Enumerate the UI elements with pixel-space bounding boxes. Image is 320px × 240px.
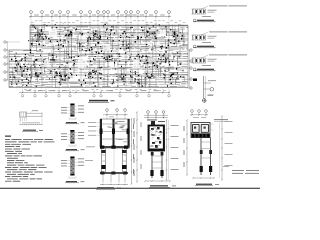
wall column detail 1 header labels (147, 120, 165, 128)
detail 4: column splice elevation (top right) (193, 76, 216, 99)
column section detail S1 (61, 104, 84, 120)
plan: top dimension line (29, 15, 171, 18)
plan: bottom dimension line and bubbles (19, 89, 170, 98)
sheet bottom border line (0, 187, 260, 189)
wall column detail 2 left dim (184, 119, 188, 175)
column section detail S1 title (65, 122, 85, 124)
column section detail S2 (61, 130, 84, 147)
wall column detail 1 lower ladder (150, 151, 163, 178)
wall column detail 1 upper body (148, 125, 165, 151)
beam detail (bottom left) (19, 110, 42, 125)
column section detail S3 (61, 157, 84, 179)
notes text block (5, 139, 55, 181)
stair detail lower floor band (100, 172, 128, 186)
beam section detail 3 (top right) (191, 55, 247, 71)
wall column detail 1 bottom dim and title (144, 180, 176, 187)
stair detail upper body (88, 119, 130, 147)
plan: right grid bubbles (186, 49, 192, 89)
column section detail S3 title (65, 181, 85, 183)
wall column detail 2 side label (214, 119, 228, 121)
plan: body walls and columns (9, 21, 188, 91)
plan title (88, 100, 115, 103)
beam section detail 2 (top right) (191, 32, 247, 48)
stair detail title (96, 187, 121, 189)
wall column detail 1 left dim (134, 111, 142, 182)
beam section detail 1 (top right) (191, 6, 247, 22)
wall column detail 1 right dim (165, 119, 179, 180)
detail 4 bottom target symbol (202, 95, 213, 103)
wall column detail 2 grid bubbles (190, 110, 208, 118)
wall column detail 2 bottom dim and title (192, 177, 219, 185)
plan: left grid bubbles (4, 41, 20, 81)
wall column detail 2 right dim (220, 115, 233, 180)
column section detail S2 title (65, 149, 85, 151)
stair detail middle rails (85, 147, 127, 173)
plan: vertical grid lines (31, 17, 169, 86)
legend text (bottom right) (223, 166, 259, 174)
plan: top grid bubbles row (30, 11, 171, 17)
beam detail title (22, 130, 43, 132)
notes header (5, 136, 11, 137)
wall column detail 2 lower ladder (200, 138, 213, 175)
stair detail grid bubbles (103, 109, 128, 119)
wall column detail 1 grid bubbles (144, 111, 168, 119)
stair detail floor band with column blocks (100, 146, 130, 149)
wall column detail 2 upper body (191, 123, 214, 138)
stair detail right dim (131, 118, 134, 184)
